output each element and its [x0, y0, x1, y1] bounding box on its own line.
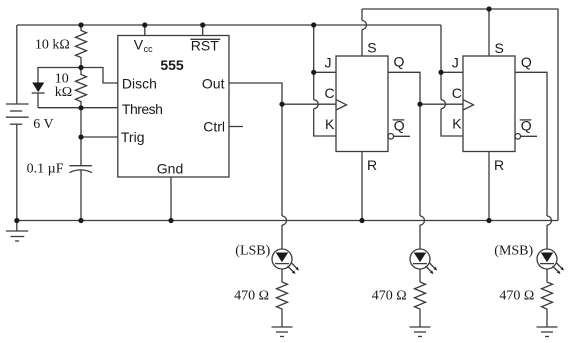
resistor 10 kOhm upper [76, 25, 87, 68]
wire S2 pin from top net [488, 9, 490, 56]
node S2 top [486, 6, 491, 11]
wire S1 with hop over Vcc rail [362, 9, 367, 56]
wire Trig net [81, 136, 118, 138]
node J1 [311, 70, 316, 75]
svg-text:Disch: Disch [122, 75, 157, 91]
resistor 470 Ohm (LSB) [277, 282, 288, 327]
node J2 [438, 70, 443, 75]
node cap ground [78, 218, 83, 223]
svg-text:10 kΩ: 10 kΩ [35, 38, 70, 53]
wire cap to ground rail [80, 170, 82, 221]
svg-text:470 Ω: 470 Ω [372, 288, 407, 303]
svg-text:R: R [494, 157, 504, 173]
node Vcc pin [142, 22, 147, 27]
svg-text:470 Ω: 470 Ω [499, 288, 534, 303]
wire R2 pin to ground rail [488, 152, 490, 221]
ground (middle) [410, 327, 431, 337]
wire diode branch bottom [37, 93, 39, 108]
svg-text:Q: Q [521, 54, 532, 70]
stub Q-bar (U2) [394, 135, 410, 137]
svg-text:K: K [452, 116, 462, 132]
node Trig [78, 134, 83, 139]
wire J2 pin [441, 71, 463, 73]
svg-text:0.1 µF: 0.1 µF [27, 161, 64, 176]
pin Ctrl stub [229, 126, 243, 128]
stub Q-bar (U3) [521, 135, 537, 137]
svg-text:S: S [495, 40, 504, 56]
wire LED3 to resistor [546, 269, 548, 282]
svg-text:R: R [367, 157, 377, 173]
svg-text:Ctrl: Ctrl [203, 119, 225, 135]
svg-text:Thresh: Thresh [122, 101, 163, 117]
wire Thresh net [38, 107, 118, 109]
battery 6 V [6, 104, 29, 124]
wire LED1 drop with hop over ground rail [282, 104, 287, 249]
wire top S-R net (y=9) and right side down [362, 9, 558, 221]
wire LED2 drop with hop over ground rail [420, 104, 425, 249]
svg-text:(LSB): (LSB) [235, 243, 270, 258]
wire Q2 net to LED3 column [515, 72, 552, 249]
wire J1 pin [314, 71, 336, 73]
svg-text:J: J [325, 55, 332, 71]
resistor 470 Ohm (middle) [415, 282, 426, 327]
label Q-bar (U3) [520, 118, 532, 134]
capacitor 0.1 uF [69, 166, 92, 173]
wire battery bottom lead [16, 124, 18, 220]
node RST pin [200, 22, 205, 27]
LED LSB [272, 249, 299, 274]
wire battery top lead [16, 25, 18, 104]
diode D1 [32, 83, 45, 94]
inverted output bubble U2 [388, 134, 394, 140]
wire J2/K2 tie from rail with hop over C2 [441, 25, 463, 136]
node battery ground [14, 218, 19, 223]
ground (LSB) [272, 327, 293, 337]
node J1 tie top [311, 22, 316, 27]
node R1-R2-diode [78, 65, 83, 70]
svg-text:Trig: Trig [121, 129, 145, 145]
IC 555 box [118, 36, 229, 178]
node C2 branch [417, 102, 422, 107]
wire Q1 net to C2 and LED2 column [388, 72, 420, 104]
svg-text:Out: Out [202, 75, 225, 91]
pin Gnd wire [170, 177, 172, 221]
svg-text:Gnd: Gnd [157, 161, 183, 177]
wire Vcc rail (top, y=25) [17, 24, 441, 26]
ground (battery) [6, 221, 28, 242]
ground (MSB) [537, 327, 558, 337]
svg-text:C: C [325, 85, 335, 101]
LED middle [410, 249, 437, 274]
svg-text:6 V: 6 V [33, 117, 53, 132]
wire J1/K1 tie with hop over C1 [314, 25, 336, 136]
wire R2 bottom to cap [80, 108, 82, 166]
wire Out net to LED1 column [229, 83, 282, 104]
wire diode branch top [38, 68, 81, 83]
flip-flop U3 box [463, 56, 515, 152]
svg-text:kΩ: kΩ [55, 85, 72, 100]
wire LED1 to resistor [281, 269, 283, 282]
label Vcc [134, 37, 153, 55]
wire C1 net [282, 103, 336, 105]
svg-text:C: C [452, 85, 462, 101]
pin RST wire [202, 25, 204, 36]
label RST (overlined) [190, 38, 220, 54]
wire C2 net [420, 103, 463, 105]
svg-text:S: S [367, 40, 376, 56]
wire LED2 to resistor [419, 269, 421, 282]
node R1 top [78, 22, 83, 27]
svg-text:K: K [325, 116, 335, 132]
node R1 pin ground [359, 218, 364, 223]
svg-text:(MSB): (MSB) [494, 243, 533, 258]
node 555 ground [168, 218, 173, 223]
wire Disch net [81, 68, 118, 84]
label Q-bar (U2) [393, 118, 405, 134]
pin Vcc wire [144, 25, 146, 36]
resistor 10 kOhm lower [76, 68, 87, 109]
clock triangle U2 [336, 100, 347, 110]
clock triangle U3 [463, 100, 474, 110]
resistor 470 Ohm (MSB) [542, 282, 553, 327]
svg-text:V: V [134, 37, 144, 53]
node R2 pin ground [486, 218, 491, 223]
node Thresh [78, 105, 83, 110]
flip-flop U2 box [336, 56, 388, 152]
wire R1 pin to ground rail [361, 152, 363, 221]
node C1 branch [279, 102, 284, 107]
svg-text:J: J [452, 55, 459, 71]
svg-text:470 Ω: 470 Ω [234, 288, 269, 303]
inverted output bubble U3 [515, 134, 521, 140]
svg-text:cc: cc [144, 44, 154, 54]
svg-text:Q: Q [394, 54, 405, 70]
wire ground rail (bottom, y=220.5) [17, 220, 558, 222]
LED MSB [537, 249, 564, 274]
svg-text:555: 555 [160, 57, 184, 73]
